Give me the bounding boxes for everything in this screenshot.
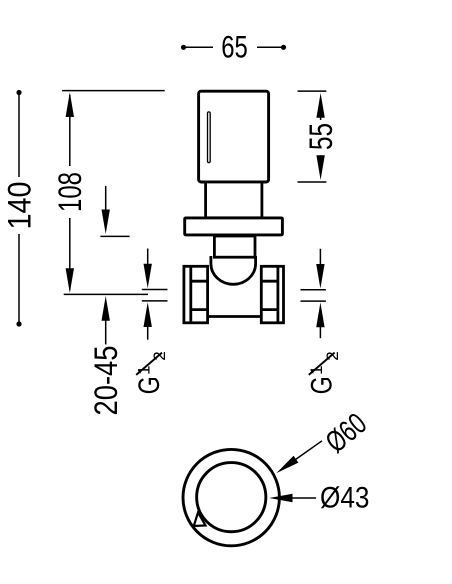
- pointer arrow to plate underside: [105, 186, 107, 210]
- dimension line 108 (handle top to wall line): [69, 95, 71, 290]
- svg-text:20-45: 20-45: [88, 346, 124, 416]
- right G1/2 dimension line lower segment: [319, 325, 321, 338]
- left G1/2 dimension line upper segment: [147, 249, 149, 266]
- escutcheon wall plate: [185, 218, 283, 235]
- right G1/2 upper extension tick: [301, 289, 326, 291]
- valve body bottom edge: [208, 315, 262, 318]
- plate underside tick line: [100, 235, 129, 237]
- bottom view outer circle (D60 plate): [183, 449, 279, 545]
- svg-text:2: 2: [150, 351, 169, 360]
- lower stem between plate and cartridge: [214, 236, 255, 257]
- svg-text:65: 65: [221, 29, 248, 65]
- finished wall reference line: [64, 293, 148, 295]
- left hex port fitting: [184, 266, 208, 323]
- dimension line 65 (top width of wall plate): [184, 46, 284, 48]
- handle indicator slot: [208, 112, 211, 163]
- right G1/2 dimension line upper segment: [319, 249, 321, 265]
- dimension 55 arrowhead up: [316, 93, 324, 118]
- right G1/2 arrowhead up: [316, 303, 324, 328]
- dimension line 20-45: [105, 318, 107, 345]
- extension tick at handle top right: [298, 90, 327, 92]
- arrowhead up of 108 dimension: [66, 92, 74, 117]
- leader arrowhead D43: [269, 494, 292, 502]
- svg-text:140: 140: [2, 182, 38, 230]
- right G1/2 arrowhead down: [316, 264, 324, 289]
- svg-text:G: G: [133, 376, 166, 394]
- cartridge dome under lower stem: [211, 256, 256, 284]
- left G1/2 lower extension tick: [142, 300, 168, 302]
- dot terminator right of 65 dimension: [281, 45, 286, 50]
- right G1/2 lower extension tick: [301, 300, 326, 302]
- arrowhead down of 108 dimension: [66, 268, 74, 293]
- leader arrowhead D60: [276, 456, 298, 473]
- svg-text:Ø43: Ø43: [320, 482, 370, 515]
- value label G1/2 left: [133, 351, 169, 394]
- svg-text:G: G: [306, 376, 339, 394]
- extension tick at handle bottom right: [298, 181, 327, 183]
- dimension line 55 lower segment: [320, 155, 322, 158]
- left G1/2 upper extension tick: [142, 289, 168, 291]
- dot terminator bottom of 140 dimension: [16, 321, 21, 326]
- svg-text:55: 55: [303, 123, 339, 150]
- dimension 20-45 (mounting depth range) arrowhead: [102, 296, 110, 321]
- dimension line 140 (overall height): [18, 93, 20, 325]
- dimension line 55 upper segment: [320, 115, 322, 120]
- left G1/2 arrowhead down: [144, 264, 152, 289]
- svg-text:108: 108: [52, 172, 88, 212]
- dot terminator top of 140 dimension: [16, 90, 21, 95]
- right hex port fitting: [261, 266, 283, 323]
- svg-text:2: 2: [323, 351, 342, 360]
- extension line at handle top: [62, 90, 165, 92]
- upper stem between handle and plate: [206, 182, 262, 218]
- leader line D60: [295, 441, 322, 460]
- dimension 55 arrowhead down: [316, 155, 324, 180]
- left G1/2 arrowhead up: [144, 302, 152, 327]
- leader line D43: [290, 497, 316, 499]
- dot terminator left of 65 dimension: [181, 45, 186, 50]
- value label G1/2 right: [306, 351, 342, 394]
- bottom view inner circle (D43 handle): [197, 463, 266, 532]
- left G1/2 dimension line lower segment: [147, 325, 149, 340]
- valve handle body: [199, 91, 269, 182]
- indicator notch triangle: [194, 513, 206, 527]
